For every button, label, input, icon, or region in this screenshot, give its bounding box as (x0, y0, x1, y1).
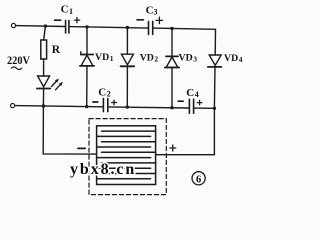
svg-text:6: 6 (196, 175, 201, 186)
svg-text:1: 1 (110, 54, 114, 63)
plus sign C2 (112, 100, 117, 105)
svg-text:VD: VD (224, 53, 238, 64)
terminal T2 bottom AC input (11, 104, 15, 108)
plus sign C4 (197, 100, 202, 105)
wire bottom rail middle segment (108, 107, 189, 108)
diode VD3 (171, 29, 173, 57)
tilde AC symbol (11, 67, 21, 70)
svg-text:4: 4 (195, 90, 199, 99)
svg-text:3: 3 (154, 8, 158, 17)
minus sign C4 (178, 100, 183, 102)
minus sign C3 (137, 19, 143, 21)
node junction R branch (44, 24, 47, 27)
wire VD4 down segment (213, 108, 215, 154)
wire heater left branch (43, 106, 96, 154)
wire top rail right segment (153, 28, 216, 29)
wire top rail left segment (16, 25, 66, 28)
svg-text:220V: 220V (7, 53, 30, 67)
capacitor C3 (149, 21, 153, 34)
heater plate outline (97, 126, 156, 185)
wire top rail middle segment (69, 27, 148, 29)
heater dashed enclosure (89, 119, 166, 195)
node junction VD1 bottom (85, 105, 88, 108)
plus sign C3 (156, 17, 162, 23)
diode VD4 (214, 29, 216, 55)
capacitor C2 (103, 99, 107, 112)
svg-text:C: C (146, 5, 154, 17)
svg-text:1: 1 (69, 7, 73, 16)
node junction VD1 top (85, 25, 88, 28)
node junction VD2 bottom (126, 105, 129, 108)
svg-text:3: 3 (193, 55, 197, 64)
resistor R (44, 26, 46, 40)
LED arrow 2 (56, 83, 62, 90)
svg-text:C: C (98, 87, 106, 99)
wire bottom rail left segment (15, 106, 103, 107)
LED VL (38, 76, 50, 87)
wire heater right branch (156, 154, 215, 156)
capacitor C1 (66, 20, 69, 33)
svg-text:4: 4 (239, 55, 243, 64)
svg-text:2: 2 (154, 54, 158, 63)
heater coil lines (97, 131, 156, 179)
node junction VD3 top (170, 27, 173, 30)
svg-text:ybx8.cn: ybx8.cn (70, 161, 136, 178)
node junction VD4 bottom (213, 107, 216, 110)
capacitor C4 (189, 99, 193, 113)
node junction LED bottom (42, 104, 45, 107)
terminal T1 top AC input (11, 23, 15, 27)
minus sign heater (78, 147, 85, 149)
minus sign C2 (93, 101, 98, 103)
svg-text:R: R (52, 44, 61, 56)
plus sign heater (170, 145, 176, 151)
diode VD2 (126, 28, 128, 55)
svg-text:VD: VD (179, 53, 193, 64)
minus sign C1 (55, 19, 61, 21)
plus sign C1 (74, 18, 79, 23)
svg-text:C: C (61, 4, 69, 16)
wire R to LED (43, 59, 45, 76)
wire LED to bottom rail (42, 89, 44, 107)
LED arrow 1 (52, 80, 58, 87)
svg-text:VD: VD (95, 52, 109, 63)
node junction VD2 top (126, 26, 129, 29)
svg-text:C: C (186, 87, 194, 99)
diode VD1 (86, 27, 88, 55)
wire bottom rail right segment (194, 107, 215, 109)
figure number 6 (192, 172, 205, 185)
node junction VD3 bottom (170, 106, 173, 109)
svg-text:2: 2 (107, 90, 111, 99)
svg-text:VD: VD (140, 52, 154, 63)
